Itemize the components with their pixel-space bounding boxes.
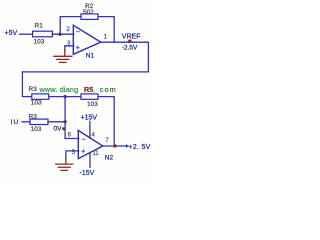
node junction dot A — [58, 33, 61, 36]
svg-text:103: 103 — [87, 101, 98, 108]
ground (N2) — [56, 159, 73, 170]
svg-text:IU: IU — [11, 119, 20, 126]
svg-text:. com: . com — [94, 85, 117, 94]
svg-text:1: 1 — [104, 35, 108, 41]
svg-text:VREF: VREF — [122, 33, 141, 40]
wire summing node down to N2 pin6 — [65, 97, 79, 139]
svg-text:+15V: +15V — [81, 115, 98, 122]
wire R3 lower to summing node — [48, 121, 65, 123]
svg-text:6: 6 — [68, 133, 72, 139]
wire N2 output to +2.5V — [103, 145, 127, 147]
node junction dot C — [63, 120, 66, 123]
wire N2 pin11 to -15V — [89, 153, 91, 168]
resistor R3 (lower) — [30, 119, 48, 124]
svg-text:502: 502 — [83, 9, 94, 16]
node output dot — [113, 144, 116, 147]
svg-text:0V: 0V — [54, 125, 63, 132]
wire R5 right down to N2 output — [98, 97, 114, 146]
svg-text:103: 103 — [34, 38, 45, 45]
wire N2 pin5 to ground — [66, 151, 79, 160]
resistor R1 — [33, 31, 53, 37]
svg-text:+: + — [81, 149, 85, 156]
wire summing node to R5 feedback — [65, 96, 81, 98]
svg-text:-2.5V: -2.5V — [122, 45, 138, 52]
svg-text:N1: N1 — [86, 53, 95, 60]
ground (N1) — [54, 50, 72, 62]
op-amp N1 — [73, 25, 101, 54]
node +2.5V label with arrow — [126, 144, 129, 148]
wire R2 right down to output node — [98, 17, 114, 43]
resistor R2 — [81, 14, 98, 20]
svg-text:R5: R5 — [84, 85, 93, 94]
svg-text:103: 103 — [31, 100, 42, 107]
svg-text:7: 7 — [105, 138, 109, 144]
svg-text:2: 2 — [67, 27, 71, 33]
svg-text:+: + — [76, 45, 80, 52]
svg-text:www. diang: www. diang — [39, 85, 79, 94]
wire feedback up to R2 — [60, 17, 81, 35]
wire R3 upper to summing node — [49, 96, 65, 98]
svg-text:4: 4 — [92, 132, 96, 138]
svg-text:R3: R3 — [29, 86, 38, 93]
node junction dot B — [63, 95, 66, 98]
wire +15V to N2 pin4 — [89, 121, 91, 138]
node 0V dot — [62, 127, 65, 130]
svg-text:−: − — [76, 29, 80, 36]
svg-text:R1: R1 — [35, 22, 44, 29]
resistor R5 feedback — [81, 94, 98, 99]
wire N1 output to VREF and right edge — [101, 41, 149, 43]
wire loop right-down-left to R3 upper — [22, 42, 148, 96]
svg-text:-15V: -15V — [80, 170, 95, 177]
svg-text:+2. 5V: +2. 5V — [129, 144, 151, 151]
node VREF dot — [128, 39, 131, 42]
op-amp N2 — [78, 130, 103, 158]
resistor R3 (upper) — [32, 94, 49, 99]
svg-text:11: 11 — [93, 151, 100, 157]
svg-text:N2: N2 — [105, 154, 114, 161]
wire +5V to R1 — [20, 33, 33, 35]
svg-text:−: − — [82, 136, 86, 143]
svg-text:+5V: +5V — [5, 30, 18, 37]
wire N1 pin3 to ground — [65, 46, 74, 51]
wire IU to R3 lower — [22, 121, 30, 123]
svg-text:103: 103 — [31, 126, 42, 133]
svg-text:R3: R3 — [29, 113, 38, 120]
wire R1 to N1 pin2 — [52, 33, 73, 35]
